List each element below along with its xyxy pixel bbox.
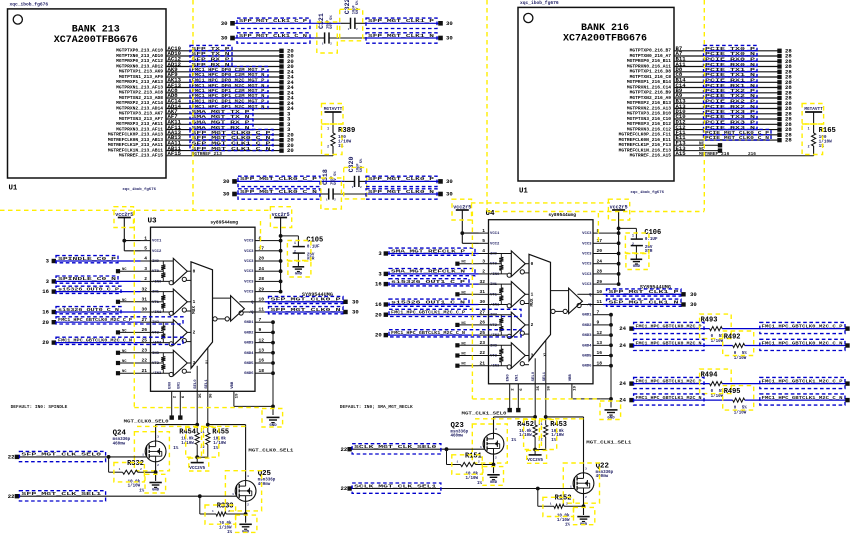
net label PCIE_TX0_N	[704, 51, 758, 58]
svg-text:MGTPTXP1_216_D8: MGTPTXP1_216_D8	[630, 69, 672, 75]
off-page connector sheet 3	[279, 121, 291, 128]
net label PCIE_TX1_N	[704, 72, 758, 79]
svg-text:1: 1	[531, 293, 534, 298]
svg-text:SCLK_MGT_CLK_SEL1: SCLK_MGT_CLK_SEL1	[354, 483, 437, 489]
svg-text:SFP_MGT_CLK0_C_P: SFP_MGT_CLK0_C_P	[240, 176, 317, 182]
svg-text:16: 16	[597, 350, 603, 356]
svg-text:GND: GND	[152, 489, 160, 493]
svg-text:21: 21	[479, 360, 485, 366]
svg-text:FMC1_HPC_GBTCLK1_M2C_C_N: FMC1_HPC_GBTCLK1_M2C_C_N	[391, 330, 465, 336]
svg-text:GND3: GND3	[582, 334, 592, 338]
svg-text:VCC2V5: VCC2V5	[189, 466, 205, 471]
svg-text:32: 32	[479, 279, 485, 285]
off-page connector sheet 24	[619, 325, 633, 332]
svg-text:1%: 1%	[819, 144, 825, 149]
pin 22 VT3	[141, 358, 160, 366]
wire no-connect pin	[674, 144, 718, 146]
svg-text:GND5: GND5	[582, 355, 592, 359]
pin 26 VT2	[141, 327, 160, 335]
pin A9 MGTPTXN2_216_A9	[630, 92, 683, 101]
wire net PCIE_RX0_P	[674, 60, 778, 62]
svg-text:27: 27	[479, 309, 485, 315]
svg-text:MGTPTXN2_213_AD8: MGTPTXN2_213_AD8	[119, 95, 163, 101]
input buffer IN2	[151, 320, 192, 346]
svg-text:2: 2	[294, 249, 296, 253]
pin 19 VBB	[231, 381, 240, 398]
net label FMC1_HPC_DP1_C2M_MGT_N	[190, 93, 268, 100]
off-page connector sheet 28	[777, 58, 792, 65]
svg-text:1/10W: 1/10W	[711, 339, 724, 344]
svg-text:30: 30	[141, 307, 147, 313]
off-page connector sheet 24	[619, 380, 633, 387]
svg-text:35: 35	[537, 385, 541, 390]
svg-text:R455: R455	[212, 429, 229, 437]
pin 4 IN0	[479, 248, 498, 256]
svg-text:26: 26	[141, 327, 147, 333]
svg-text:3: 3	[495, 428, 497, 431]
wire net SMA_MGT_REFCLK_P	[386, 253, 479, 255]
svg-text:26: 26	[479, 320, 485, 326]
off-page connector sheet 30	[438, 191, 453, 198]
svg-text:10: 10	[597, 289, 603, 295]
svg-text:1%: 1%	[227, 531, 233, 535]
pin 3 VT0	[141, 266, 160, 274]
off-page connector sheet 16	[42, 288, 56, 295]
svg-text:16: 16	[259, 358, 265, 364]
svg-text:460mw: 460mw	[596, 475, 609, 479]
pin AK7 MGTPTXP3_213_AK7	[119, 108, 178, 117]
off-page connector sheet 28	[777, 126, 792, 133]
svg-text:50V 5%: 50V 5%	[356, 0, 360, 14]
pin AC14 MGTPRXP2_213_AC14	[116, 98, 181, 107]
wire net PCIE_TX0_P	[674, 50, 778, 52]
wire net SFP_MGT_CLK0_N	[265, 311, 344, 313]
no-connect NC	[455, 363, 478, 368]
pin 26 VT2	[479, 320, 498, 328]
svg-text:VCC3: VCC3	[582, 232, 592, 236]
svg-text:0: 0	[193, 269, 196, 274]
off-page connector sheet 28	[777, 131, 792, 138]
no-connect NC	[699, 142, 722, 148]
net label MGTRREF_216	[699, 151, 756, 157]
off-page connector sheet 30	[221, 35, 235, 42]
no-connect NC	[455, 261, 478, 266]
net label PCIE_TX2_P	[704, 87, 758, 94]
net label PCIE_RX3_N	[704, 124, 758, 131]
svg-text:1/10W: 1/10W	[519, 433, 532, 438]
svg-text:MGTRREF_216_A15: MGTRREF_216_A15	[630, 153, 672, 159]
off-page connector sheet 20	[279, 53, 294, 60]
svg-text:MGTREFCLK1P_216_F13: MGTREFCLK1P_216_F13	[619, 142, 672, 148]
net label SFP_MGT_CLK1_N	[366, 33, 437, 43]
ground	[149, 483, 161, 493]
highlight box C318	[321, 178, 342, 209]
svg-text:30: 30	[223, 178, 230, 185]
highlight box R455	[204, 427, 219, 457]
highlight box Q23	[472, 424, 507, 463]
wire net PCIE_MGT_CLK0_C_P	[674, 134, 778, 136]
off-page connector sheet 24	[279, 100, 294, 107]
pin 18 GND6	[582, 360, 603, 368]
pin AK13 MGTPRXP1_213_AK13	[116, 77, 181, 86]
no-connect NC	[116, 360, 141, 365]
svg-text:30: 30	[479, 299, 485, 305]
off-page connector sheet 28	[777, 68, 792, 75]
svg-text:30: 30	[446, 35, 453, 42]
svg-text:SFP_MGT_CLK_SEL0: SFP_MGT_CLK_SEL0	[21, 452, 101, 458]
svg-text:C321: C321	[318, 13, 325, 29]
wire to MGTRREF pin	[332, 146, 334, 156]
svg-text:2: 2	[327, 145, 329, 149]
svg-text:1/10W: 1/10W	[128, 484, 141, 489]
net label FMC1_HPC_GBTCLK0_M2C_P	[634, 322, 704, 333]
net label SFP_MGT_CLK0_C_N	[238, 189, 320, 199]
svg-text:1/10W: 1/10W	[213, 441, 226, 446]
svg-text:23: 23	[141, 348, 147, 354]
wire net FMC1_HPC_GBTCLK0_M2C_C_P	[54, 321, 141, 323]
highlight box R151	[452, 455, 483, 474]
highlight box VCC2V5	[527, 450, 547, 463]
net label FMC1_HPC_DP1_C2M_MGT_P	[190, 87, 268, 94]
svg-text:1: 1	[232, 493, 234, 496]
pin 3 VT0	[479, 258, 498, 266]
pin 17 VCC3	[582, 238, 603, 246]
pin 21 /IN3	[141, 368, 163, 376]
pin 16 GND5	[582, 350, 603, 358]
highlight box MGTAVTT	[322, 104, 344, 125]
highlight box vcc2r5	[608, 199, 629, 220]
svg-text:20: 20	[42, 339, 49, 346]
pin B14 MGTPRXP1_216_B14	[627, 77, 686, 86]
wire source to ground	[245, 501, 247, 522]
pin 36 SEL1	[543, 371, 552, 391]
off-page connector sheet 28	[777, 79, 792, 86]
svg-text:27: 27	[141, 317, 147, 323]
off-page connector sheet 30	[343, 298, 359, 305]
svg-text:30: 30	[352, 309, 359, 316]
svg-text:3: 3	[247, 475, 249, 478]
output buffer	[213, 296, 256, 322]
pin A15 MGTRREF_216_A15	[630, 150, 687, 159]
pin 24 VCC3	[582, 258, 603, 266]
capacitor C106	[617, 227, 662, 259]
wire net SPINDLE_C0_N	[54, 280, 141, 282]
net label SFP_TX_P	[190, 45, 232, 52]
resistor R332	[109, 457, 158, 494]
svg-text:VCC3: VCC3	[244, 240, 254, 244]
off-page connector sheet 28	[777, 121, 792, 128]
mux stage	[529, 254, 551, 383]
off-page connector sheet 3	[378, 250, 388, 257]
pin AC10 MGTPTXP0_213_AC10	[116, 45, 181, 54]
svg-text:28: 28	[785, 137, 792, 144]
input buffer IN1	[489, 282, 530, 308]
svg-text:EN0: EN0	[169, 381, 173, 389]
off-page connector sheet 20	[375, 311, 388, 318]
svg-text:MGTPRXN3_216_C12: MGTPRXN3_216_C12	[627, 127, 671, 133]
off-page connector	[845, 343, 849, 347]
note DEFAULT	[340, 404, 413, 410]
svg-text:31: 31	[141, 297, 147, 303]
svg-text:U3: U3	[148, 218, 158, 226]
pin 2 EN0	[507, 374, 516, 391]
wire net FMC1_HPC_DP1_C2M_MGT_P	[166, 92, 280, 94]
off-page connector sheet 16	[42, 309, 56, 316]
svg-text:MGTPRXN1_216_C14: MGTPRXN1_216_C14	[627, 85, 671, 91]
svg-text:12: 12	[259, 337, 265, 343]
svg-text:VCC3: VCC3	[244, 270, 254, 274]
highlight box vcc2r5	[270, 207, 291, 228]
pin 9 GND2	[244, 327, 265, 335]
svg-text:2: 2	[632, 242, 634, 246]
svg-text:SCLK_MGT_CLK_SEL0: SCLK_MGT_CLK_SEL0	[354, 444, 437, 450]
svg-text:R151: R151	[465, 453, 482, 461]
pin AF9 MGTPTXN1_213_AF9	[119, 71, 178, 80]
net label MGT_CLK1_SEL1	[586, 440, 631, 446]
svg-text:30: 30	[446, 191, 453, 198]
highlight box C105	[287, 241, 311, 261]
power flag vcc2r5	[610, 204, 628, 284]
svg-text:GND: GND	[295, 273, 303, 277]
net label FMC1_HPC_GBTCLK0_M2C_C_N	[760, 339, 845, 350]
pin 31 VT1	[479, 289, 498, 297]
wire VBB to ground rail	[234, 391, 273, 406]
svg-text:MGTAVTT: MGTAVTT	[324, 107, 343, 112]
svg-text:Q23: Q23	[451, 422, 465, 430]
svg-text:10.0k: 10.0k	[213, 437, 226, 442]
off-page connector sheet 20	[279, 147, 294, 154]
off-page connector sheet 3	[46, 278, 56, 285]
svg-text:MGTREFCLK0N_216_E11: MGTREFCLK0N_216_E11	[619, 137, 672, 143]
net label FMC1_HPC_GBTCLK1_M2C_P	[634, 377, 704, 388]
input buffer IN3	[151, 350, 192, 376]
svg-text:24: 24	[619, 342, 626, 349]
highlight box R333	[205, 505, 236, 524]
pin AC12 MGTPRXP0_213_AC12	[116, 56, 181, 65]
svg-text:5: 5	[482, 238, 485, 244]
svg-text:C320: C320	[348, 157, 355, 173]
svg-text:FMC1_HPC_GBTCLK1_M2C_C_P: FMC1_HPC_GBTCLK1_M2C_C_P	[391, 310, 465, 316]
pin 24 VCC3	[244, 266, 265, 274]
off-page connector sheet 30	[681, 301, 697, 308]
no-connect NC	[116, 329, 141, 334]
svg-text:U1: U1	[519, 188, 528, 196]
pin AF13 MGTPRXN1_213_AF13	[116, 82, 181, 91]
svg-text:20: 20	[259, 256, 265, 262]
capacitor C322	[344, 0, 360, 31]
highlight box R452	[524, 420, 540, 450]
wire net SFP_MGT_CLK0_C_P	[166, 134, 280, 136]
svg-text:2: 2	[193, 331, 196, 336]
pin C14 MGTPRXN1_216_C14	[627, 82, 686, 91]
svg-text:17: 17	[597, 238, 603, 244]
svg-text:MGTRREF_216: MGTRREF_216	[699, 151, 730, 157]
ground	[487, 475, 499, 485]
svg-text:FMC1_HPC_GBTCLK0_M2C_C_P: FMC1_HPC_GBTCLK0_M2C_C_P	[58, 317, 132, 323]
svg-text:MGTREFCLK1N_213_AB11: MGTREFCLK1N_213_AB11	[108, 148, 163, 154]
svg-text:SFP_MGT_CLK0_N: SFP_MGT_CLK0_N	[368, 189, 434, 195]
off-page connector sheet 28	[777, 84, 792, 91]
pin A13 MGTPRXN2_216_A13	[627, 103, 686, 112]
highlight box VCC2V5	[189, 458, 209, 471]
resistor R495	[724, 388, 748, 416]
svg-text:460mw: 460mw	[113, 442, 126, 446]
svg-text:R389: R389	[338, 127, 355, 135]
svg-text:17: 17	[259, 246, 265, 252]
resistor R454	[173, 425, 202, 458]
highlight box R495	[723, 386, 754, 411]
pin 9 GND2	[582, 320, 603, 328]
off-page connector sheet 28	[777, 110, 792, 117]
capacitor C321	[318, 13, 334, 45]
net label PCIE_TX1_P	[704, 66, 758, 73]
pin C10 MGTPTXN3_216_C10	[627, 113, 686, 122]
net label SFP_MGT_CLK1_P	[607, 289, 682, 296]
pin AD12 MGTPRXN0_213_AD12	[116, 61, 181, 70]
highlight box C320	[344, 167, 367, 199]
svg-text:1/10W: 1/10W	[557, 518, 570, 523]
pin 10 Q	[251, 297, 265, 305]
pin AF7 MGTPTXN3_213_AF7	[119, 113, 178, 122]
wire net FMC1_HPC_DP1_M2C_MGT_N	[166, 108, 280, 110]
wire net PCIE_TX1_P	[674, 71, 778, 73]
highlight box R454	[186, 427, 202, 457]
pin AB13 MGTREFCLK0N_213_AB13	[108, 134, 182, 143]
svg-text:FMC1_HPC_GBTCLK1_M2C_C_N: FMC1_HPC_GBTCLK1_M2C_C_N	[762, 395, 843, 401]
svg-text:24: 24	[259, 266, 265, 272]
net label MGT_CLK0_SEL0	[124, 418, 169, 424]
svg-text:1: 1	[480, 446, 482, 449]
wire net MGT_CLK0_SEL1	[206, 423, 246, 481]
svg-text:SFP_MGT_CLK0_P: SFP_MGT_CLK0_P	[271, 297, 341, 303]
svg-text:VCC2: VCC2	[152, 250, 162, 254]
power flag vcc2r5	[272, 212, 290, 292]
svg-text:GND2: GND2	[582, 324, 592, 328]
pin 23 IN3	[141, 348, 160, 356]
svg-text:si5326_OUT0_C_N: si5326_OUT0_C_N	[58, 307, 119, 313]
wire net PCIE_TX3_N	[674, 118, 778, 120]
svg-text:GND4: GND4	[244, 352, 254, 356]
pin AD8 MGTPTXN2_213_AD8	[119, 92, 178, 101]
svg-text:DEFAULT: IN0: SPINDLE: DEFAULT: IN0: SPINDLE	[11, 404, 68, 410]
net label FMC1_HPC_DP0_C2M_MGT_P	[190, 66, 268, 73]
IC U3 sy89544umg outline	[148, 218, 256, 392]
svg-text:SFP_MGT_CLK1_C_N: SFP_MGT_CLK1_C_N	[239, 33, 307, 39]
wire net PCIE_RX1_N	[674, 87, 778, 89]
svg-text:xqc_ibob_fg676: xqc_ibob_fg676	[520, 0, 559, 6]
wire no-connect pin	[674, 150, 718, 152]
svg-text:VCC3: VCC3	[244, 250, 254, 254]
net label SFP_MGT_CLK0_N	[366, 189, 437, 199]
highlight box R453	[541, 420, 556, 450]
wire net SFP_MGT_CLK0_C_N	[166, 139, 280, 141]
svg-text:SFP_MGT_CLK1_N: SFP_MGT_CLK1_N	[368, 33, 434, 39]
off-page connector sheet 24	[619, 342, 633, 349]
svg-text:MGTAVTT: MGTAVTT	[804, 107, 823, 112]
svg-text:2: 2	[495, 456, 497, 459]
pin 13 GND4	[582, 340, 603, 348]
svg-text:C318: C318	[322, 169, 329, 185]
pin AD14 MGTPRXN2_213_AD14	[116, 103, 181, 112]
off-page connector sheet 30	[681, 291, 697, 298]
svg-text:VCC1: VCC1	[490, 232, 500, 236]
svg-text:5: 5	[144, 246, 147, 252]
svg-text:11: 11	[259, 307, 265, 313]
net label PCIE_TX3_N	[704, 114, 758, 121]
net label si5326_OUT1_C_N	[389, 299, 469, 306]
svg-text:1: 1	[193, 300, 196, 305]
svg-text:MGTREFCLK0P_216_F11: MGTREFCLK0P_216_F11	[619, 132, 672, 138]
svg-text:22: 22	[479, 350, 485, 356]
wire EN1 no-connect	[178, 391, 182, 420]
svg-text:11: 11	[597, 299, 603, 305]
svg-text:22: 22	[8, 454, 15, 461]
wire net SFP_MGT_CLK0_C_N	[235, 193, 441, 195]
svg-text:GND: GND	[490, 481, 498, 485]
wire SEL1	[545, 384, 547, 417]
wire SEL1	[207, 391, 209, 424]
pin 35 SEL0	[532, 371, 541, 391]
svg-text:1: 1	[482, 228, 485, 234]
pin 32 IN1	[479, 279, 498, 287]
off-page connector sheet 30	[438, 20, 453, 27]
svg-text:R492: R492	[724, 334, 741, 342]
power flag MGTAVTT	[324, 107, 343, 133]
svg-text:SFP_MGT_CLK_SEL1: SFP_MGT_CLK_SEL1	[21, 491, 101, 497]
svg-text:PCIE_MGT_CLK0_C_N: PCIE_MGT_CLK0_C_N	[705, 135, 769, 141]
svg-text:C105: C105	[306, 237, 323, 245]
pin 13 GND4	[244, 348, 265, 356]
svg-text:1%: 1%	[565, 523, 571, 527]
svg-text:GND1: GND1	[244, 321, 254, 325]
highlight box gnd	[574, 507, 595, 524]
highlight box R494	[700, 369, 732, 394]
wire source to ground	[493, 454, 495, 473]
highlight box MGTAVTT	[802, 104, 824, 125]
svg-text:MGTPRXP2_213_AC14: MGTPRXP2_213_AC14	[116, 100, 163, 106]
svg-text:sy89544umg: sy89544umg	[548, 212, 576, 218]
svg-text:SFP_MGT_CLK0_P: SFP_MGT_CLK0_P	[368, 176, 434, 182]
pin C8 MGTPTXN1_216_C8	[630, 71, 683, 80]
svg-text:SPINDLE_C0_N: SPINDLE_C0_N	[58, 276, 116, 282]
svg-text:GND4: GND4	[582, 344, 592, 348]
svg-text:MGTPTXN1_213_AF9: MGTPTXN1_213_AF9	[119, 74, 163, 80]
svg-text:1: 1	[808, 127, 810, 131]
svg-text:VBB: VBB	[231, 381, 235, 389]
no-connect NC	[455, 342, 478, 347]
svg-text:36: 36	[210, 393, 214, 398]
svg-text:20: 20	[375, 332, 382, 339]
svg-text:SFP_MGT_CLK1_P: SFP_MGT_CLK1_P	[609, 289, 679, 295]
pin 21 /IN3	[479, 360, 501, 368]
pin 25 /IN2	[141, 337, 163, 345]
off-page connector sheet 20	[42, 339, 56, 346]
note DEFAULT	[11, 404, 68, 410]
capacitor C105	[279, 234, 324, 266]
highlight box gnd	[288, 261, 311, 277]
pin 2 /IN0	[141, 276, 163, 284]
wire SEL0	[534, 384, 536, 417]
svg-text:13: 13	[259, 348, 265, 354]
resistor R333	[200, 496, 248, 535]
svg-text:vcc2r5: vcc2r5	[610, 204, 628, 210]
net label FMC1_HPC_GBTCLK0_M2C_C_P	[56, 317, 183, 324]
highlight box R332	[114, 463, 144, 482]
svg-text:1%: 1%	[338, 144, 344, 149]
pin 2 EN0	[169, 381, 178, 398]
wire source to ground	[155, 462, 157, 481]
highlight box gnd	[145, 474, 166, 493]
